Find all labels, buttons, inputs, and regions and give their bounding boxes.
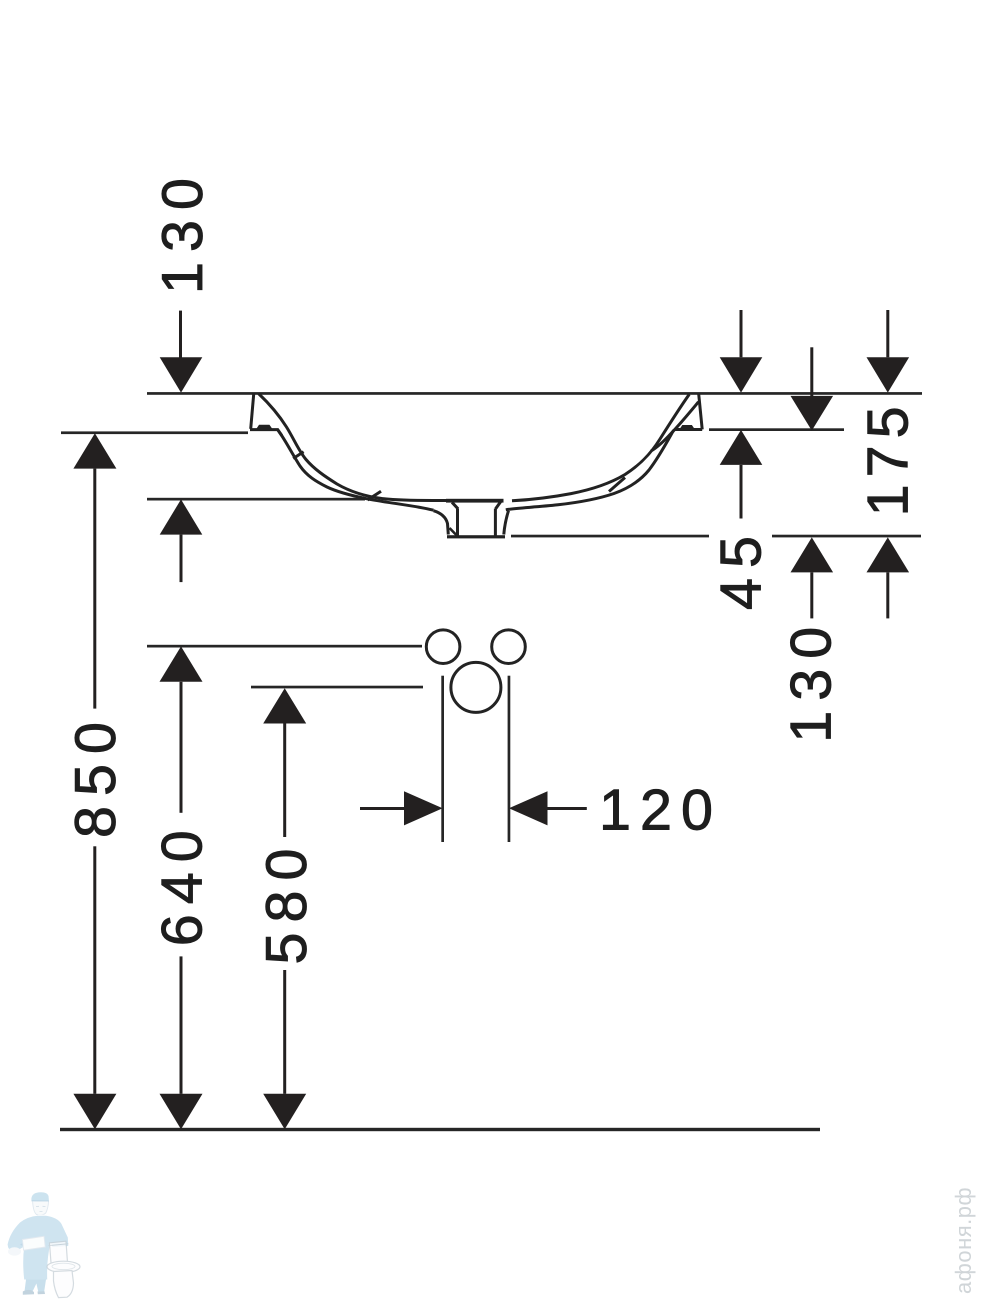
dimension 120 right arrowhead [509, 791, 548, 825]
drain bottom-left chamfer [450, 528, 458, 536]
watermark logo toilet [47, 1241, 80, 1297]
drain tube inner left wall [456, 509, 459, 536]
svg-text:130: 130 [780, 617, 844, 743]
dimension 580 line lower [283, 970, 286, 1094]
svg-text:580: 580 [255, 839, 319, 965]
basin right fixing clip [680, 426, 694, 430]
svg-text:175: 175 [857, 399, 921, 516]
drain tube outer left wall [434, 511, 449, 535]
wire drain-bottom extension line D segment 2 [772, 535, 921, 538]
dimension 130 right arrow down [810, 347, 813, 396]
drain bottom [447, 535, 505, 538]
dimension 850 arrow down [73, 1094, 116, 1130]
wire drain-bottom extension line D segment 1 [511, 535, 709, 538]
svg-text:афоня.рф: афоня.рф [951, 1187, 976, 1294]
drain tube inner right wall [494, 509, 497, 536]
dimension 130 top-left arrow up [160, 499, 203, 534]
dimension 175 arrow down [886, 310, 889, 357]
basin outline left rim edge [251, 393, 254, 429]
svg-text:640: 640 [151, 820, 215, 946]
svg-text:45: 45 [710, 526, 774, 610]
basin right outer surface curve [506, 430, 674, 510]
dimension 850 arrow up [73, 433, 116, 468]
basin right inner surface curve S1 [512, 394, 689, 501]
basin left outer surface curve [278, 430, 434, 510]
tap hole small circle left [426, 630, 460, 664]
dimension 130 right arrow up [791, 537, 834, 572]
wire tap-hole extension line E (640 top) [147, 645, 422, 648]
dimension 175 arrow up [867, 537, 910, 572]
basin right rim edge [699, 394, 703, 429]
tap hole small circle right [492, 630, 526, 664]
wire tap-hole extension line F (580 top) [251, 686, 423, 689]
wire left underside extension line B [61, 431, 248, 434]
watermark logo plumber figure [8, 1192, 69, 1295]
tap hole big circle [451, 662, 501, 712]
dimension 640 line lower [180, 956, 183, 1093]
wire bowl-bottom extension line C [147, 498, 365, 501]
svg-text:120: 120 [599, 779, 722, 843]
dimension 120 right tail [548, 807, 587, 810]
wire floor line [60, 1128, 820, 1131]
wire top reference line A (rim top) [147, 392, 922, 395]
tap hole vertical extension line left [441, 676, 444, 842]
dimension 120 left tail [360, 807, 405, 810]
svg-text:850: 850 [64, 712, 128, 838]
wire right underside extension line B2 [709, 428, 844, 431]
basin left inner surface curve [259, 394, 446, 501]
dimension 120 left arrowhead [404, 791, 443, 825]
svg-text:130: 130 [151, 168, 215, 294]
basin wall joint tick left upper [293, 452, 303, 459]
tap hole vertical extension line right [508, 676, 511, 842]
drain left chamfer [452, 502, 458, 509]
drain right chamfer [496, 502, 501, 509]
basin left fixing clip [257, 425, 272, 429]
basin wall joint tick left lower [368, 491, 382, 500]
dimension 850 line lower [93, 846, 96, 1094]
dimension 580 arrow up [263, 688, 306, 723]
dimension 640 arrow down [160, 1094, 203, 1130]
dimension 850 line upper [93, 469, 96, 709]
dimension 580 arrow down [263, 1094, 306, 1130]
drain seat [446, 499, 504, 503]
basin right rim underside [674, 428, 702, 431]
dimension 45 arrow up [720, 430, 763, 465]
basin right far-edge curve S2 [651, 402, 699, 451]
drain tube outer right wall [504, 511, 509, 535]
basin left rim underside [250, 430, 282, 436]
dimension 45 arrow down [740, 310, 743, 357]
dimension 580 line upper [283, 724, 286, 838]
dimension 640 line upper [180, 682, 183, 813]
dimension 130 top-left arrow down [179, 311, 182, 358]
dimension 640 arrow up [160, 646, 203, 681]
basin wall joint tick right [609, 478, 625, 492]
